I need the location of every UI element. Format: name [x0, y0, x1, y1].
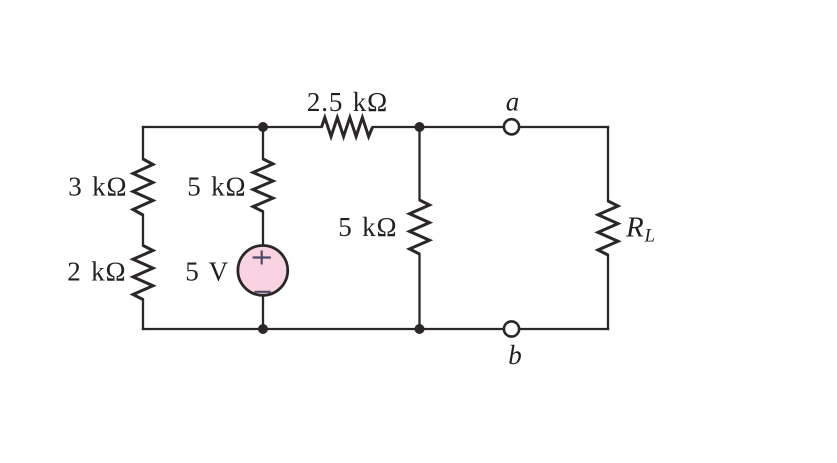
svg-text:R: R [625, 211, 645, 243]
svg-text:a: a [506, 86, 520, 116]
svg-text:3 kΩ: 3 kΩ [68, 172, 127, 202]
svg-text:2.5 kΩ: 2.5 kΩ [307, 87, 388, 117]
svg-text:5 V: 5 V [185, 257, 229, 287]
svg-text:5 kΩ: 5 kΩ [187, 172, 246, 202]
svg-text:L: L [644, 226, 656, 247]
svg-text:b: b [508, 340, 522, 370]
svg-text:2 kΩ: 2 kΩ [67, 257, 126, 287]
svg-text:5 kΩ: 5 kΩ [338, 212, 397, 242]
